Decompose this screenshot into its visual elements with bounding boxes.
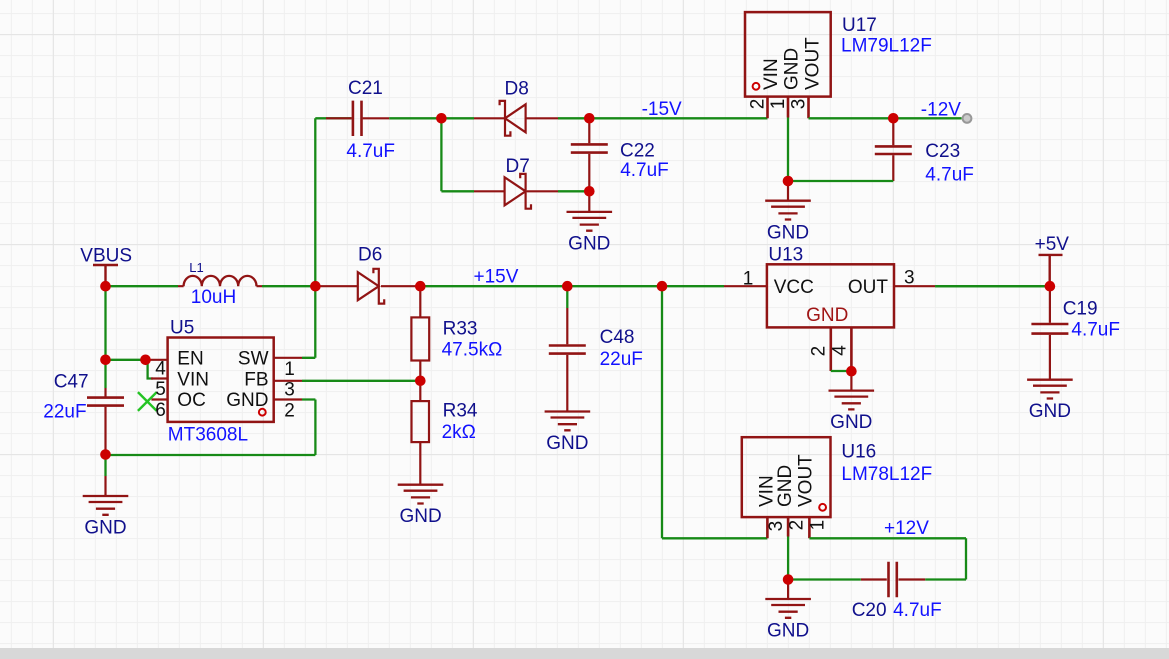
svg-text:1: 1 [743,269,754,290]
svg-text:4.7uF: 4.7uF [893,600,942,621]
svg-text:C20: C20 [852,600,887,621]
svg-text:OC: OC [177,390,206,411]
svg-text:2: 2 [748,99,769,110]
svg-text:3: 3 [789,99,810,110]
svg-text:4.7uF: 4.7uF [346,141,395,162]
svg-text:C47: C47 [54,372,89,393]
svg-text:4: 4 [155,358,166,379]
svg-text:U13: U13 [768,245,803,266]
svg-text:U17: U17 [842,15,877,36]
svg-text:10uH: 10uH [191,287,236,308]
svg-text:22uF: 22uF [600,349,643,370]
svg-text:L1: L1 [189,260,203,275]
svg-text:VCC: VCC [774,277,814,298]
svg-text:GND: GND [806,305,848,326]
svg-text:U5: U5 [170,317,194,338]
svg-text:C21: C21 [348,78,383,99]
svg-text:GND: GND [775,465,796,507]
svg-text:GND: GND [568,233,610,254]
svg-text:LM79L12F: LM79L12F [841,36,932,57]
svg-text:C23: C23 [925,141,960,162]
svg-text:D7: D7 [506,156,530,177]
svg-text:C48: C48 [600,327,635,348]
svg-text:+15V: +15V [474,266,519,287]
svg-text:VOUT: VOUT [796,454,817,507]
svg-text:FB: FB [244,369,268,390]
svg-text:R34: R34 [443,400,478,421]
svg-text:GND: GND [767,223,809,244]
svg-text:VOUT: VOUT [803,37,824,90]
svg-text:VBUS: VBUS [80,245,132,266]
svg-text:C22: C22 [620,141,655,162]
svg-text:GND: GND [782,48,803,90]
svg-text:3: 3 [904,268,915,289]
svg-text:2: 2 [284,400,295,421]
svg-text:VIN: VIN [761,58,782,90]
svg-text:+5V: +5V [1035,234,1070,255]
svg-text:GND: GND [84,518,126,539]
svg-text:GND: GND [1029,401,1071,422]
svg-text:GND: GND [767,621,809,642]
svg-text:4.7uF: 4.7uF [1071,319,1120,340]
svg-text:22uF: 22uF [43,402,86,423]
svg-text:1: 1 [768,99,789,110]
svg-text:GND: GND [399,506,441,527]
svg-text:D8: D8 [505,79,529,100]
svg-text:GND: GND [830,412,872,433]
svg-text:2kΩ: 2kΩ [442,422,476,443]
svg-text:VIN: VIN [177,369,209,390]
svg-text:U16: U16 [841,442,876,463]
svg-text:GND: GND [226,390,268,411]
svg-text:4: 4 [830,345,851,356]
svg-text:2: 2 [809,346,830,357]
svg-text:OUT: OUT [848,277,889,298]
svg-text:6: 6 [155,400,166,421]
svg-text:5: 5 [155,379,166,400]
svg-text:R33: R33 [443,319,478,340]
svg-text:1: 1 [808,520,829,531]
svg-text:3: 3 [284,380,295,401]
svg-text:1: 1 [284,359,295,380]
svg-text:LM78L12F: LM78L12F [841,464,932,485]
svg-text:C19: C19 [1063,299,1098,320]
svg-text:GND: GND [546,433,588,454]
svg-text:4.7uF: 4.7uF [925,165,974,186]
svg-text:MT3608L: MT3608L [168,425,248,446]
svg-text:-15V: -15V [642,99,682,120]
svg-text:3: 3 [766,521,787,532]
svg-text:4.7uF: 4.7uF [620,160,669,181]
svg-text:SW: SW [238,349,269,370]
svg-text:-12V: -12V [921,99,961,120]
svg-text:+12V: +12V [884,518,929,539]
svg-text:47.5kΩ: 47.5kΩ [442,339,503,360]
svg-text:EN: EN [177,349,203,370]
svg-text:2: 2 [787,520,808,531]
svg-text:D6: D6 [358,245,382,266]
